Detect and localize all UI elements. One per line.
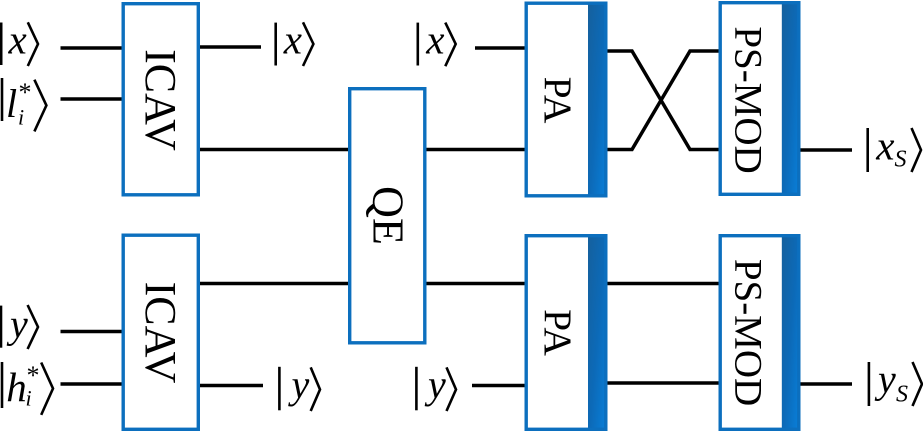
svg-text:PA: PA — [536, 77, 580, 124]
svg-text:PA: PA — [536, 309, 580, 356]
svg-text:i: i — [26, 386, 32, 411]
svg-text:x: x — [283, 17, 302, 63]
svg-text:PS-MOD: PS-MOD — [727, 26, 770, 173]
svg-text:l: l — [6, 81, 17, 126]
svg-text:h: h — [6, 364, 27, 410]
svg-text:x: x — [8, 17, 27, 63]
svg-text:y: y — [874, 357, 896, 402]
svg-text:x: x — [875, 122, 894, 168]
svg-text:*: * — [19, 78, 32, 107]
svg-text:x: x — [425, 17, 444, 63]
svg-text:ICAV: ICAV — [136, 282, 185, 384]
svg-text:i: i — [18, 105, 24, 130]
svg-text:PS-MOD: PS-MOD — [727, 259, 770, 406]
svg-text:ICAV: ICAV — [136, 49, 185, 151]
svg-text:y: y — [6, 302, 28, 347]
svg-text:S: S — [895, 147, 907, 173]
svg-text:S: S — [896, 382, 908, 408]
svg-text:QE: QE — [364, 186, 413, 245]
svg-text:y: y — [424, 362, 446, 407]
svg-text:y: y — [288, 362, 310, 407]
